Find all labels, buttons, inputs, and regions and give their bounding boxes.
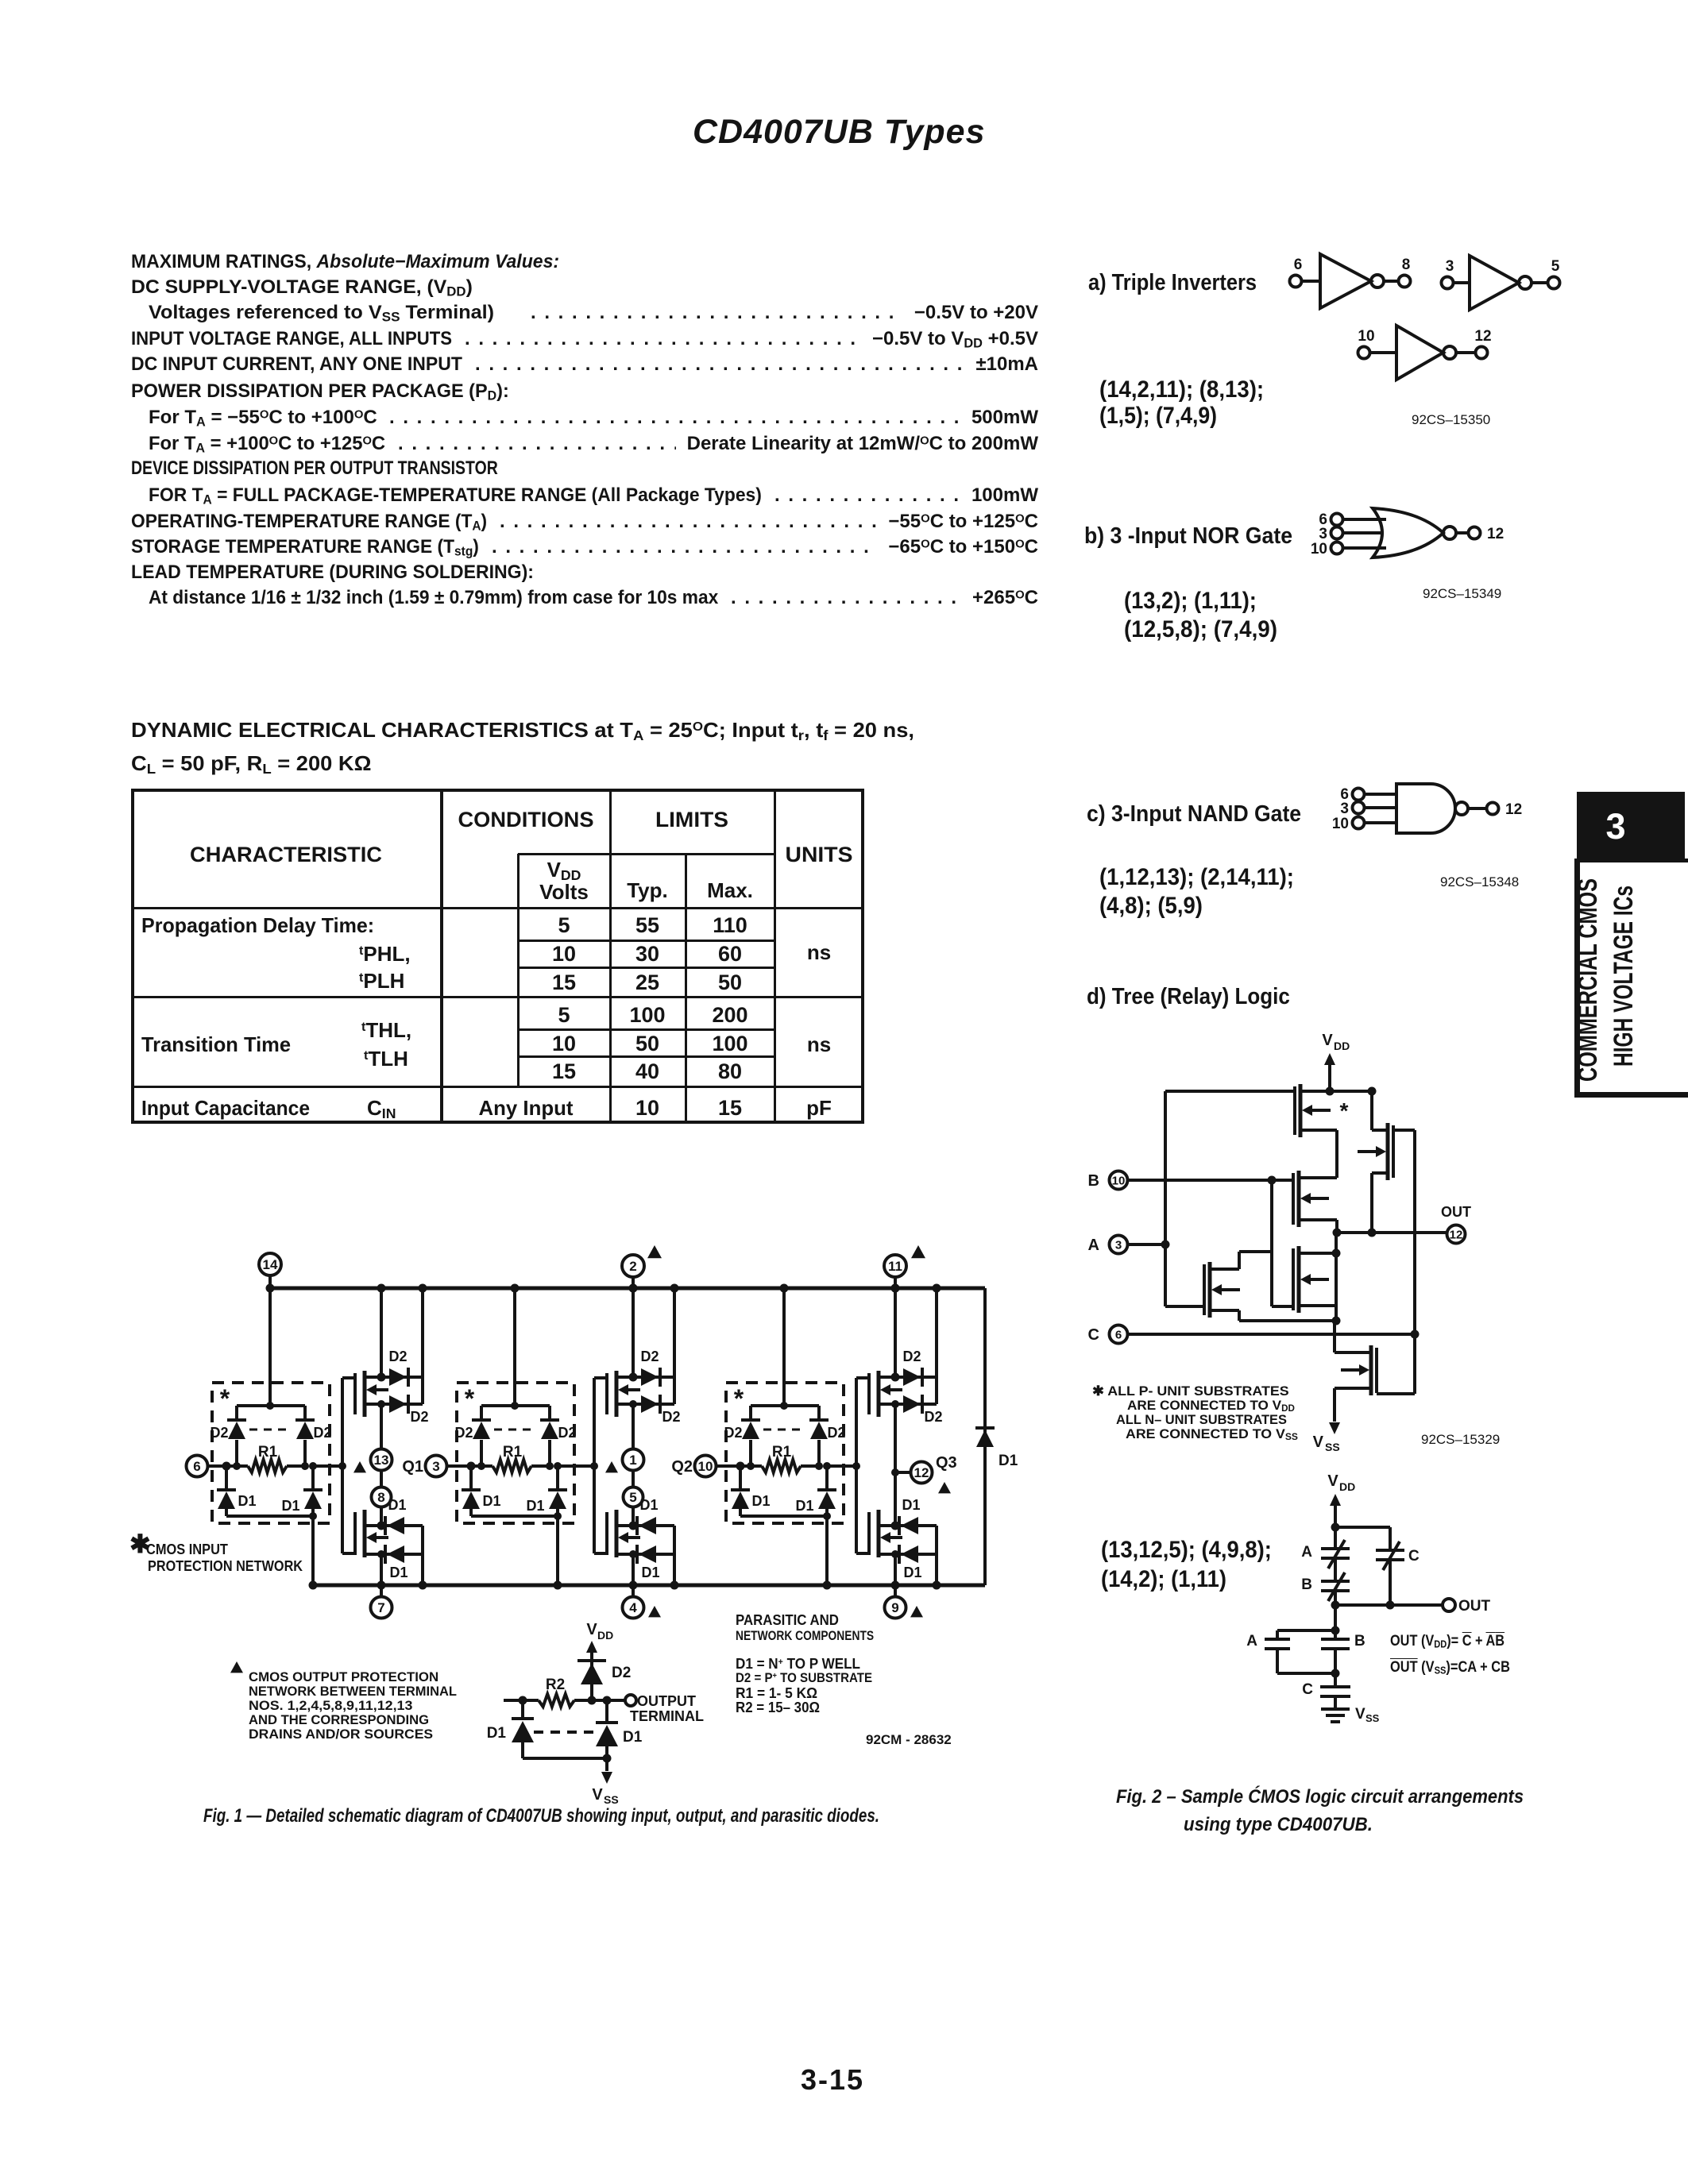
svg-text:B: B (1354, 1633, 1365, 1650)
diode D1 right (stage 1) (281, 1462, 323, 1516)
contact B upper (fig2) (1301, 1558, 1350, 1605)
terminal OUT (fig2) (1443, 1598, 1491, 1615)
svg-text:D1: D1 (641, 1565, 659, 1580)
wire pin to NMOS (stage 2) (632, 1507, 635, 1526)
svg-text:D1: D1 (999, 1453, 1018, 1469)
svg-text:10: 10 (1332, 816, 1349, 832)
svg-text:OUT: OUT (1458, 1598, 1491, 1615)
wire top rail (tree logic) (1300, 1090, 1372, 1093)
svg-text:D1: D1 (903, 1565, 921, 1580)
wire NMOS source stub (stage 2) (616, 1550, 674, 1558)
svg-text:9: 9 (891, 1600, 898, 1615)
diode D2 right (stage 1) (295, 1406, 332, 1466)
wire right branch (fig2) (1335, 1527, 1390, 1550)
wire input to R1 (stage 1) (208, 1462, 237, 1471)
svg-text:SS: SS (1365, 1712, 1380, 1724)
wire output tap (stage 3) (891, 1468, 911, 1476)
MOSFET gate line (stage 1) (342, 1378, 355, 1553)
wire NMOS stub B to VSS rail (stage 2) (670, 1526, 679, 1590)
diode D1 left (stage 1) (217, 1466, 257, 1516)
wire N3 source to VSS (tree logic) (1329, 1388, 1340, 1434)
pin 13 output terminal (stage 1) (371, 1449, 392, 1471)
svg-text:R1: R1 (258, 1444, 278, 1461)
wire D2 top link (stage 2) (481, 1404, 550, 1407)
wire NMOS stub B to VSS rail (stage 1) (419, 1526, 427, 1590)
diode D2 right (stage 3) (809, 1406, 846, 1466)
wire P3 drain to rail (tree logic) (1368, 1087, 1377, 1131)
wire NMOS drain stub (stage 2) (616, 1522, 674, 1530)
svg-text:V: V (592, 1786, 603, 1804)
svg-text:V: V (586, 1621, 597, 1638)
svg-text:*: * (734, 1384, 744, 1413)
wire OUT line (tree logic) (1337, 1229, 1446, 1237)
wire PMOS to pin 13 (stage 1) (380, 1404, 383, 1449)
ground symbol VSS (fig2) (1321, 1706, 1380, 1724)
node C input pin 6 (tree logic) (1088, 1325, 1420, 1345)
svg-text:3: 3 (432, 1459, 439, 1474)
wire NMOS source stub (stage 3) (879, 1550, 937, 1558)
wire VDD drop A (stage 1) (377, 1284, 386, 1378)
svg-text:D2: D2 (902, 1349, 921, 1364)
wire input to R1 (stage 2) (447, 1462, 481, 1471)
wire VDD feed (fig2) (1330, 1494, 1341, 1549)
svg-text:D2: D2 (612, 1665, 631, 1681)
NOR gate U-b (pins 6,3,10 -> 12) (1311, 508, 1504, 558)
node B input pin 10 (tree logic) (1088, 1171, 1293, 1190)
svg-text:DD: DD (1339, 1480, 1355, 1493)
diode D2 parasitic upper (stage 3) (902, 1349, 922, 1387)
PMOS transistor Q1P (stage 1) (355, 1371, 388, 1417)
wire D1 bottom link (stage 2) (471, 1512, 562, 1520)
svg-text:COMMERCIAL CMOS: COMMERCIAL CMOS (1573, 878, 1603, 1082)
svg-text:12: 12 (1505, 801, 1522, 818)
svg-text:10: 10 (698, 1459, 713, 1474)
wire pin 14 to box (stage 1) (266, 1275, 275, 1410)
transistor N1 gate B (tree logic) (1293, 1246, 1336, 1313)
svg-text:D2: D2 (313, 1425, 331, 1441)
wire B branch (tree logic) (1272, 1180, 1293, 1306)
wire protection network to VSS rail (stage 3) (823, 1516, 832, 1590)
pin 5 terminal (stage 2) (624, 1488, 643, 1507)
PMOS transistor Q2P (stage 2) (607, 1371, 640, 1417)
svg-text:C: C (1088, 1326, 1099, 1344)
wire protection network to VSS rail (stage 1) (309, 1516, 318, 1590)
contact A upper (fig2) (1301, 1540, 1350, 1569)
svg-text:C: C (1408, 1548, 1420, 1565)
svg-text:D2: D2 (724, 1425, 742, 1441)
diode D1 parasitic lower (stage 3) (899, 1545, 922, 1580)
svg-text:*: * (465, 1384, 475, 1413)
node A input pin 3 (tree logic) (1088, 1236, 1165, 1255)
wire NMOS drain stub (stage 1) (365, 1522, 423, 1530)
svg-text:10: 10 (1112, 1174, 1126, 1187)
svg-text:D2: D2 (410, 1409, 428, 1425)
svg-text:6: 6 (193, 1459, 200, 1474)
wire VDD feed (tree logic) (1324, 1053, 1335, 1096)
svg-text:V: V (1355, 1706, 1365, 1723)
wire P2 source to OUT (tree logic) (1333, 1220, 1342, 1237)
svg-text:R2: R2 (546, 1677, 565, 1693)
wire pins link (stage 1) (380, 1471, 383, 1487)
transistor P2 gate B (tree logic) (1293, 1171, 1337, 1227)
svg-text:7: 7 (377, 1600, 384, 1615)
svg-text:D1: D1 (795, 1498, 813, 1514)
pin 1 output terminal (stage 2) (623, 1449, 644, 1471)
wire VDD drop B (stage 3) (933, 1284, 941, 1405)
svg-text:V: V (1313, 1433, 1324, 1451)
svg-text:SS: SS (1325, 1441, 1340, 1453)
diode D2 left (stage 2) (454, 1406, 491, 1466)
svg-text:12: 12 (1450, 1228, 1463, 1241)
svg-text:D1: D1 (238, 1493, 256, 1509)
svg-text:TERMINAL: TERMINAL (630, 1708, 704, 1724)
svg-text:D1: D1 (639, 1497, 658, 1513)
diode D1 parasitic upper (stage 1) (385, 1497, 407, 1535)
pin 2 VDD terminal (stage 2) (622, 1245, 662, 1277)
MOSFET gate line (stage 3) (856, 1378, 869, 1553)
svg-text:8: 8 (377, 1490, 384, 1505)
transistor N2 gate A (tree logic) (1204, 1262, 1240, 1318)
svg-text:11: 11 (888, 1259, 902, 1274)
diode D1 parasitic lower (stage 2) (637, 1545, 660, 1580)
svg-text:3: 3 (1340, 801, 1349, 817)
diode D1 left (stage 3) (731, 1466, 771, 1516)
wire N3 gate link (tree logic) (1377, 1392, 1415, 1395)
svg-text:OUT: OUT (1441, 1204, 1471, 1220)
svg-text:2: 2 (629, 1259, 636, 1274)
wire NMOS to pin 9 (stage 3) (891, 1554, 900, 1596)
wire VDD drop A (stage 3) (891, 1284, 900, 1378)
svg-text:D1: D1 (487, 1725, 507, 1742)
NMOS transistor Q3N (stage 3) (869, 1510, 902, 1557)
svg-text:D2: D2 (454, 1425, 473, 1441)
svg-text:*: * (220, 1384, 230, 1413)
label VSS (tree logic) (1313, 1433, 1340, 1453)
wire D1 bottom link (stage 3) (740, 1512, 831, 1520)
wire D1 bottom link (stage 1) (226, 1512, 317, 1520)
diode D1 rightmost substrate diode (Fig.1) (975, 1428, 1018, 1469)
svg-text:5: 5 (1551, 258, 1560, 275)
diode D2 (output protection) (577, 1661, 631, 1684)
pin 14 VDD terminal (stage 1) (259, 1253, 281, 1275)
svg-text:D1: D1 (751, 1493, 770, 1509)
svg-text:D1: D1 (281, 1498, 299, 1514)
wire VDD rail to box (stage 2) (511, 1284, 520, 1410)
svg-text:5: 5 (629, 1490, 636, 1505)
diode D1 right (stage 2) (526, 1462, 567, 1516)
svg-text:8: 8 (1402, 257, 1411, 273)
wire PMOS source stub (stage 1) (365, 1400, 385, 1408)
diode D1 left (output protection) (487, 1700, 534, 1758)
svg-text:6: 6 (1294, 257, 1303, 273)
wire N3 drain up (tree logic) (1333, 1321, 1336, 1352)
svg-text:D2: D2 (558, 1425, 576, 1441)
svg-text:10: 10 (1358, 328, 1374, 345)
wire VDD drop B (stage 1) (419, 1284, 427, 1405)
svg-text:HIGH VOLTAGE ICs: HIGH VOLTAGE ICs (1609, 886, 1639, 1067)
resistor R1 (stage 2) (477, 1444, 554, 1472)
wire VDD drop B (stage 2) (670, 1284, 679, 1405)
resistor R2 (output protection) (504, 1677, 574, 1707)
sidebar tab label HIGH VOLTAGE ICs (1609, 886, 1639, 1067)
diode D2 parasitic upper (stage 2) (640, 1349, 660, 1387)
svg-text:D1: D1 (388, 1497, 406, 1513)
svg-text:R1: R1 (503, 1444, 523, 1461)
svg-text:14: 14 (263, 1257, 278, 1272)
resistor R1 (stage 3) (747, 1444, 823, 1472)
wire P3 source to OUT (tree logic) (1370, 1173, 1373, 1233)
svg-text:V: V (1327, 1472, 1338, 1490)
wire PMOS source stub (stage 2) (616, 1400, 637, 1408)
wire C bus vertical (tree logic) (1393, 1130, 1415, 1394)
wire D2 top link (stage 1) (237, 1404, 305, 1407)
wire VSS arrow (output protection) (592, 1758, 618, 1806)
wire VDD top rail (Fig.1) (269, 1287, 985, 1291)
label VDD (fig2) (1327, 1472, 1355, 1493)
pin 12 output terminal Q3 (stage 3) (911, 1454, 957, 1493)
svg-text:13: 13 (374, 1453, 389, 1468)
wire pins link (stage 2) (632, 1471, 635, 1487)
svg-text:3: 3 (1446, 258, 1454, 275)
node output marker (stage 1) (353, 1461, 366, 1472)
svg-text:D2: D2 (827, 1425, 845, 1441)
wire NMOS drain stub (stage 3) (879, 1522, 937, 1530)
pin 10 input terminal (stage 3) (671, 1456, 716, 1477)
pin 12 OUT terminal (tree logic) (1441, 1204, 1471, 1244)
NAND gate U-c (pins 6,3,10 -> 12) (1332, 784, 1522, 833)
transistor P1 gate A (tree logic) (1295, 1084, 1349, 1137)
capacitor B lower (fig2) (1321, 1633, 1365, 1687)
resistor R1 (stage 1) (233, 1444, 309, 1472)
wire PMOS to NMOS (stage 3) (894, 1404, 897, 1526)
diode D1 parasitic lower (stage 1) (385, 1545, 408, 1580)
svg-text:*: * (1340, 1098, 1349, 1123)
pin 4 VSS terminal (stage 2) (623, 1597, 662, 1619)
wire VSS bottom rail (Fig.1) (313, 1584, 985, 1588)
svg-text:B: B (1301, 1576, 1312, 1593)
svg-text:12: 12 (1487, 526, 1504, 542)
diode D2 parasitic upper (stage 1) (388, 1349, 408, 1387)
input protection network box (stage 2) (457, 1383, 574, 1523)
wire OUT line (fig2) (1331, 1601, 1443, 1610)
svg-text:4: 4 (629, 1600, 637, 1615)
svg-text:D1: D1 (526, 1498, 544, 1514)
svg-text:12: 12 (914, 1465, 929, 1480)
svg-text:A: A (1088, 1237, 1099, 1254)
wire P1 source down (tree logic) (1300, 1130, 1337, 1178)
svg-text:10: 10 (1311, 541, 1327, 558)
pin 6 input terminal (stage 1) (187, 1456, 208, 1477)
wire VDD rail to box (stage 3) (780, 1284, 789, 1410)
wire rail to N2 gate (tree logic) (1165, 1305, 1204, 1308)
wire VDD drop A (stage 2) (629, 1284, 638, 1378)
inverter gate 1 (pins 6-8) (1290, 254, 1411, 308)
wire PMOS drain stub (stage 1) (365, 1373, 423, 1382)
wire protection network to VSS rail (stage 2) (554, 1516, 562, 1590)
wire NMOS to pin 7 (stage 1) (377, 1554, 386, 1596)
svg-text:OUTPUT: OUTPUT (637, 1693, 696, 1709)
diode D1 left (stage 2) (462, 1466, 501, 1516)
diode D2 parasitic lower (stage 3) (895, 1395, 943, 1425)
wire left rail (tree logic) (1161, 1091, 1170, 1306)
svg-text:B: B (1088, 1172, 1099, 1190)
pin 7 VSS terminal (stage 1) (371, 1597, 392, 1619)
diode D2 parasitic lower (stage 1) (381, 1395, 429, 1425)
svg-text:R1: R1 (772, 1444, 792, 1461)
diode D1 parasitic upper (stage 2) (637, 1497, 659, 1535)
svg-text:SS: SS (604, 1793, 619, 1806)
wire VDD arrow (output protection) (586, 1641, 597, 1700)
wire PMOS to pin 1 (stage 2) (632, 1404, 635, 1449)
svg-text:D1: D1 (623, 1729, 643, 1746)
svg-text:D2: D2 (210, 1425, 228, 1441)
terminal OUTPUT (output protection) (625, 1693, 704, 1724)
marker output protection note (230, 1661, 243, 1673)
wire PMOS source stub (stage 3) (879, 1400, 899, 1408)
capacitor A lower (fig2) (1246, 1630, 1335, 1673)
wire PMOS drain stub (stage 2) (616, 1373, 674, 1382)
svg-text:A: A (1301, 1544, 1312, 1561)
svg-text:12: 12 (1474, 328, 1491, 345)
wire gate feed top (tree logic) (1165, 1090, 1295, 1093)
wire dashed well link (output protection) (534, 1731, 594, 1734)
wire NMOS stub B to VSS rail (stage 3) (933, 1526, 941, 1590)
svg-text:Q3: Q3 (936, 1454, 957, 1472)
svg-text:6: 6 (1115, 1328, 1122, 1341)
svg-text:D2: D2 (662, 1409, 680, 1425)
diode D2 parasitic lower (stage 2) (633, 1395, 681, 1425)
wire output node (output protection) (574, 1696, 625, 1705)
wire N2 drain link (tree logic) (1239, 1252, 1272, 1269)
wire pin 11 drop (stage 3) (891, 1277, 900, 1377)
wire input to R1 (stage 3) (717, 1462, 751, 1471)
inverter gate 3 (pins 10-12) (1358, 326, 1491, 380)
label VDD (tree logic) (1322, 1032, 1350, 1052)
wire NMOS source stub (stage 1) (365, 1550, 423, 1558)
pin 9 VSS terminal (stage 3) (885, 1597, 924, 1619)
capacitor C lower (fig2) (1302, 1681, 1350, 1709)
wire right bus vertical (Fig.1) (983, 1288, 987, 1585)
svg-text:D2: D2 (924, 1409, 942, 1425)
pin 3 input terminal (stage 2) (402, 1456, 446, 1477)
svg-text:D1: D1 (389, 1565, 408, 1580)
input protection network box (stage 1) (212, 1383, 330, 1523)
wire D2 top link (stage 3) (751, 1404, 819, 1407)
wire R1 to gate (stage 1) (313, 1462, 346, 1470)
diode D1 right (stage 3) (795, 1462, 836, 1516)
transistor P3 gate C (tree logic) (1358, 1123, 1393, 1180)
svg-text:D2: D2 (640, 1349, 659, 1364)
label VDD (output protection) (586, 1621, 613, 1642)
diode D1 right (output protection) (596, 1700, 643, 1758)
wire pin 2 drop (stage 2) (629, 1277, 638, 1377)
NMOS transistor Q2N (stage 2) (607, 1510, 640, 1557)
diode D2 right (stage 2) (540, 1406, 577, 1466)
svg-text:3: 3 (1115, 1238, 1122, 1252)
svg-text:V: V (1322, 1032, 1333, 1049)
wire OUT bus vertical (tree logic) (1332, 1233, 1341, 1325)
inverter gate 2 (pins 3-5) (1442, 256, 1560, 310)
NMOS transistor Q1N (stage 1) (355, 1510, 388, 1557)
svg-text:D1: D1 (902, 1497, 920, 1513)
wire PMOS drain stub (stage 3) (879, 1373, 937, 1382)
transistor N3 gate C (tree logic) (1335, 1345, 1377, 1395)
svg-text:1: 1 (629, 1453, 636, 1468)
diode D1 parasitic upper (stage 3) (899, 1497, 921, 1535)
svg-text:A: A (1246, 1633, 1257, 1650)
wire N2 source link (tree logic) (1239, 1310, 1336, 1321)
wire R1 to gate (stage 2) (558, 1462, 598, 1470)
wire to lower network (fig2) (1331, 1605, 1340, 1639)
diode D2 left (stage 3) (724, 1406, 760, 1466)
svg-text:Q2: Q2 (671, 1458, 693, 1476)
svg-text:D1: D1 (482, 1493, 500, 1509)
PMOS transistor Q3P (stage 3) (869, 1371, 902, 1417)
sidebar tab label COMMERCIAL CMOS (1573, 878, 1603, 1082)
pin 8 terminal (stage 1) (372, 1488, 392, 1507)
svg-text:D2: D2 (388, 1349, 407, 1364)
contact C upper (fig2) (1376, 1542, 1420, 1605)
wire pin to NMOS (stage 1) (380, 1507, 383, 1526)
svg-text:DD: DD (597, 1629, 613, 1642)
svg-text:C: C (1302, 1681, 1313, 1698)
wire VSS link (output protection) (523, 1754, 612, 1763)
pin 11 VDD terminal (stage 3) (884, 1245, 925, 1277)
svg-text:DD: DD (1334, 1040, 1350, 1052)
svg-text:3: 3 (1319, 526, 1327, 542)
wire NMOS to pin 4 (stage 2) (629, 1554, 638, 1596)
svg-text:Q1: Q1 (402, 1458, 423, 1476)
wire R1 to gate (stage 3) (827, 1462, 860, 1470)
node output marker (stage 2) (605, 1461, 618, 1472)
input protection network box (stage 3) (726, 1383, 844, 1523)
MOSFET gate line (stage 2) (594, 1378, 607, 1553)
diode D2 left (stage 1) (210, 1406, 246, 1466)
